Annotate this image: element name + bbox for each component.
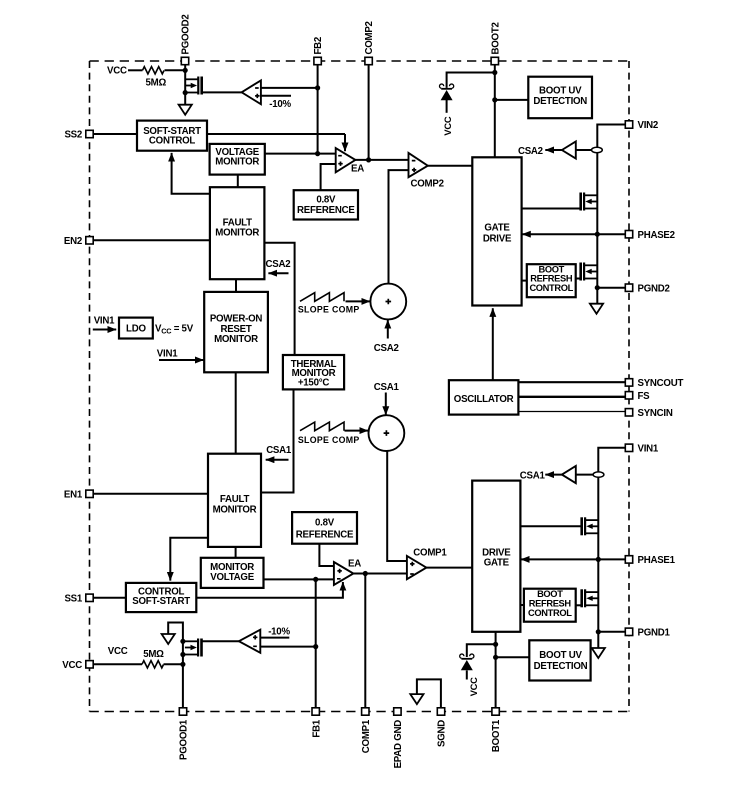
svg-text:SLOPE COMP: SLOPE COMP (298, 305, 360, 315)
svg-text:BOOT UV: BOOT UV (539, 650, 582, 661)
svg-text:OSCILLATOR: OSCILLATOR (454, 394, 514, 405)
svg-text:CSA2: CSA2 (374, 343, 399, 354)
svg-text:-10%: -10% (269, 99, 291, 110)
svg-text:LDO: LDO (126, 324, 146, 335)
svg-text:CSA2: CSA2 (518, 146, 543, 157)
svg-text:CONTROL: CONTROL (528, 608, 572, 618)
svg-text:FB1: FB1 (311, 719, 322, 737)
svg-text:SOFT-START: SOFT-START (132, 596, 190, 607)
svg-text:PGND1: PGND1 (638, 627, 671, 638)
svg-text:SS2: SS2 (64, 130, 82, 141)
svg-text:CSA1: CSA1 (520, 471, 546, 482)
svg-text:MONITOR: MONITOR (213, 504, 257, 515)
svg-text:DETECTION: DETECTION (533, 96, 587, 107)
svg-text:0.8V: 0.8V (315, 517, 335, 528)
svg-text:CONTROL: CONTROL (149, 136, 195, 147)
svg-text:-10%: -10% (268, 626, 290, 637)
svg-text:VCC: VCC (108, 646, 128, 657)
svg-text:VOLTAGE: VOLTAGE (210, 572, 254, 583)
svg-text:SS1: SS1 (64, 593, 82, 604)
svg-text:FAULT: FAULT (220, 494, 250, 505)
svg-text:REFERENCE: REFERENCE (297, 205, 355, 216)
svg-text:VIN1: VIN1 (638, 443, 659, 454)
svg-text:GATE: GATE (484, 558, 510, 569)
svg-text:COMP2: COMP2 (411, 179, 444, 190)
svg-text:VCC = 5V: VCC = 5V (155, 323, 194, 335)
svg-text:BOOT1: BOOT1 (491, 719, 502, 752)
svg-text:DRIVE: DRIVE (483, 233, 512, 244)
svg-text:COMP2: COMP2 (364, 21, 375, 54)
svg-text:VIN1: VIN1 (157, 349, 178, 360)
svg-text:EA: EA (351, 163, 364, 174)
svg-text:EPAD GND: EPAD GND (393, 720, 404, 769)
svg-text:EN2: EN2 (64, 236, 82, 247)
svg-text:COMP1: COMP1 (413, 547, 447, 558)
svg-text:SLOPE COMP: SLOPE COMP (298, 435, 360, 445)
svg-text:EN1: EN1 (64, 489, 83, 500)
svg-text:5MΩ: 5MΩ (143, 649, 164, 660)
svg-text:CONTROL: CONTROL (529, 283, 573, 293)
svg-text:PGOOD2: PGOOD2 (181, 15, 192, 55)
svg-text:CSA1: CSA1 (266, 445, 292, 456)
svg-text:PGOOD1: PGOOD1 (179, 719, 190, 760)
svg-text:FB2: FB2 (313, 37, 324, 55)
svg-text:BOOT UV: BOOT UV (539, 86, 582, 97)
svg-text:VIN2: VIN2 (638, 120, 659, 131)
svg-text:CSA1: CSA1 (374, 382, 400, 393)
svg-text:CSA2: CSA2 (266, 259, 291, 270)
svg-text:GATE: GATE (484, 222, 510, 233)
svg-text:VIN1: VIN1 (94, 316, 115, 327)
svg-text:DETECTION: DETECTION (534, 661, 588, 672)
svg-text:REFERENCE: REFERENCE (296, 529, 354, 540)
svg-text:SGND: SGND (437, 720, 448, 747)
svg-text:BOOT: BOOT (537, 589, 563, 599)
svg-text:EA: EA (348, 558, 361, 569)
svg-text:VCC: VCC (469, 677, 479, 696)
svg-text:MONITOR: MONITOR (214, 334, 258, 345)
svg-text:PHASE1: PHASE1 (638, 555, 676, 566)
svg-text:SYNCIN: SYNCIN (638, 408, 673, 419)
svg-text:VCC: VCC (443, 116, 453, 135)
svg-text:MONITOR: MONITOR (215, 157, 259, 168)
svg-text:COMP1: COMP1 (361, 719, 372, 753)
svg-text:BOOT2: BOOT2 (490, 22, 501, 54)
svg-text:VCC: VCC (62, 660, 82, 671)
svg-text:5MΩ: 5MΩ (146, 77, 167, 88)
svg-text:MONITOR: MONITOR (215, 227, 259, 238)
svg-text:SYNCOUT: SYNCOUT (638, 378, 684, 389)
svg-text:FS: FS (638, 391, 651, 402)
svg-text:VCC: VCC (107, 65, 127, 76)
svg-text:PGND2: PGND2 (638, 283, 670, 294)
svg-text:+150°C: +150°C (298, 377, 329, 388)
svg-text:PHASE2: PHASE2 (638, 230, 675, 241)
